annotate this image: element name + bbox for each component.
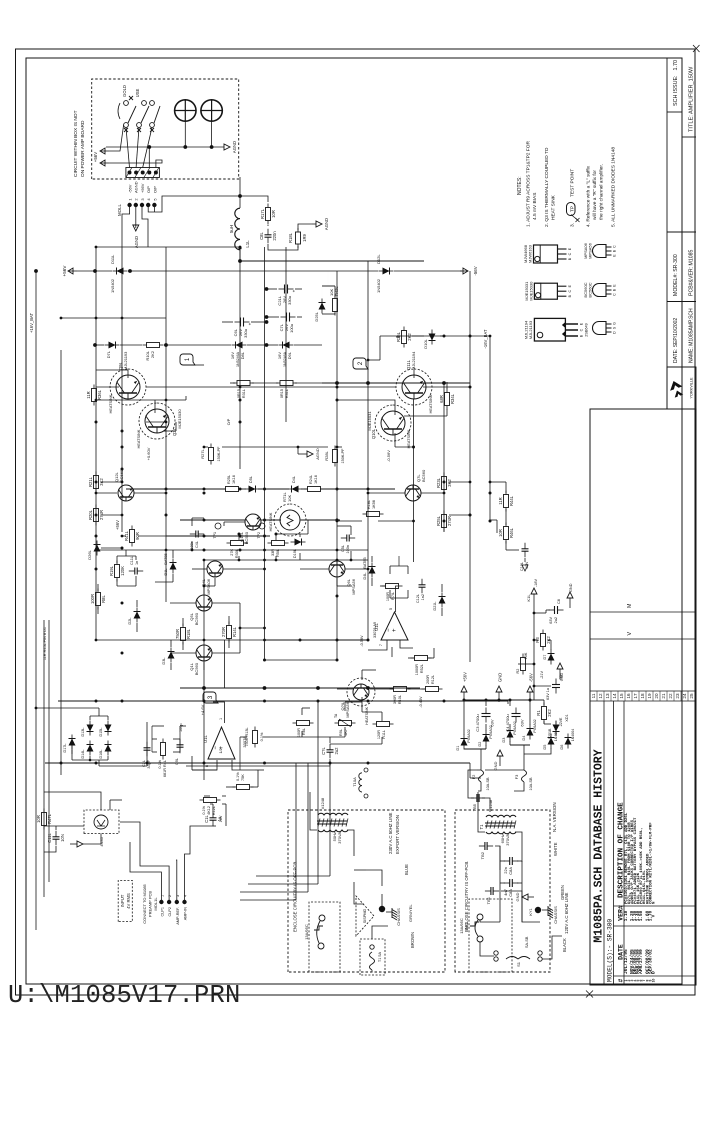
svg-text:BAT85: BAT85 <box>363 557 367 568</box>
diode D24L <box>245 488 260 490</box>
res R14L <box>228 639 230 643</box>
R7L C12L links <box>389 590 391 598</box>
K1L chain wires <box>543 721 545 724</box>
rail y204 <box>203 560 205 780</box>
svg-text:−: − <box>213 746 219 750</box>
svg-text:R24L: R24L <box>309 475 313 484</box>
svg-text:0R15: 0R15 <box>280 389 284 398</box>
svg-text:4K12: 4K12 <box>207 806 211 815</box>
svg-text:AGND: AGND <box>232 141 237 153</box>
svg-text:MJE15030: MJE15030 <box>177 409 182 429</box>
AGND arrow zobel <box>312 223 316 225</box>
wire R25L drop lower <box>449 514 470 516</box>
svg-text:D7: D7 <box>543 655 547 660</box>
svg-text:B: B <box>613 288 617 291</box>
svg-text:D: D <box>650 971 656 974</box>
svg-text:GND: GND <box>498 673 503 682</box>
export coil T10A <box>359 773 362 792</box>
GND arrow NA <box>528 896 534 898</box>
vertical x562 <box>204 559 368 561</box>
svg-text:PX6A02: PX6A02 <box>533 719 537 732</box>
svg-text:D7L: D7L <box>106 350 111 358</box>
svg-text:D4: D4 <box>522 736 526 741</box>
svg-text:370VA: 370VA <box>337 832 342 844</box>
wire L1L to jack bus <box>239 196 241 208</box>
wire R27L chain <box>204 446 208 448</box>
svg-text:MJL21194: MJL21194 <box>411 351 416 370</box>
bridge diode D2 <box>485 731 487 746</box>
res R6L <box>293 722 297 724</box>
wire C5L links <box>350 551 352 560</box>
output rail x739 <box>322 382 470 384</box>
wire pin3 +56V <box>142 205 148 247</box>
rail y286 <box>285 247 287 422</box>
svg-text:16V: 16V <box>230 352 235 359</box>
svg-text:1n2: 1n2 <box>421 594 425 600</box>
svg-text:MPSA56: MPSA56 <box>351 578 356 595</box>
diode D7 <box>550 650 552 665</box>
resistor R28L <box>334 463 336 467</box>
input bundle wire c <box>317 701 319 884</box>
gnd arrow input <box>70 843 77 845</box>
package drawing TO92 D S G <box>593 322 607 335</box>
svg-text:D17L: D17L <box>63 743 67 752</box>
transistor Q10L MJE15031 <box>381 411 405 435</box>
input dashed box <box>118 880 132 921</box>
svg-text:R34L: R34L <box>450 393 455 404</box>
svg-text:D5L: D5L <box>249 476 253 483</box>
transformer T2 export <box>317 821 347 824</box>
svg-text:MJE15030: MJE15030 <box>528 281 533 301</box>
svg-text:E: E <box>568 284 572 287</box>
wire input pair links <box>170 602 196 604</box>
resistor R16L <box>363 513 367 515</box>
wires emitter column <box>230 382 235 384</box>
svg-text:CLP2: CLP2 <box>168 907 172 917</box>
input bundle wire d <box>329 763 331 876</box>
svg-text:3.: 3. <box>570 223 576 227</box>
svg-text:BR1: BR1 <box>464 921 469 930</box>
svg-text:PREAMP PCB: PREAMP PCB <box>148 891 153 917</box>
svg-text:E: E <box>568 247 572 250</box>
svg-text:5uH: 5uH <box>229 225 234 233</box>
cap C2 22n <box>504 860 510 862</box>
gnd bus tie <box>490 701 508 704</box>
wire Q7L collector lower <box>421 492 444 494</box>
svg-text:-0.46V: -0.46V <box>419 696 423 708</box>
emitter resistor R31L <box>233 382 237 384</box>
rail y413 <box>413 399 415 562</box>
svg-text:+56V: +56V <box>62 265 67 277</box>
svg-text:33R: 33R <box>271 549 275 556</box>
wire V1 upper <box>77 270 112 272</box>
cap C5 <box>555 688 557 694</box>
res R8L <box>97 606 99 610</box>
svg-text:K1L: K1L <box>526 594 531 602</box>
res R19L <box>116 578 118 582</box>
svg-text:-56V: -56V <box>473 266 478 275</box>
diode D21L <box>441 593 443 608</box>
wire frontend drop <box>265 659 338 661</box>
wire output Zobel drop <box>423 260 425 262</box>
svg-text:DATE: SEP/10/2002: DATE: SEP/10/2002 <box>673 318 679 363</box>
svg-text:+56V: +56V <box>115 520 120 530</box>
resistor R24L <box>304 488 308 490</box>
svg-text:TP2: TP2 <box>257 532 261 539</box>
svg-text:BLUE: BLUE <box>404 864 409 875</box>
svg-text:D6: D6 <box>560 745 564 750</box>
wire pin2 AGND arrow <box>135 205 137 222</box>
R18L R14L links <box>182 642 184 650</box>
svg-text:C11L: C11L <box>47 832 52 842</box>
svg-text:TA: TA <box>334 713 338 718</box>
fuse TB1 <box>485 890 491 892</box>
svg-text:5. ALL UNMARKED DIODES 1N4148: 5. ALL UNMARKED DIODES 1N4148 <box>611 147 617 227</box>
rail -16V_BAT <box>489 336 491 520</box>
svg-text:2SB649: 2SB649 <box>585 323 589 337</box>
svg-text:+16V_BAT: +16V_BAT <box>29 313 34 334</box>
svg-text:27K: 27K <box>230 549 234 556</box>
svg-text:R21L: R21L <box>88 476 93 487</box>
rail y96 <box>95 247 97 640</box>
wire R35L top <box>396 336 400 338</box>
svg-text:R10L: R10L <box>398 695 402 704</box>
speaker jack dashed box <box>92 79 239 179</box>
fuse hookups <box>478 782 481 791</box>
vertical x482 <box>96 639 265 641</box>
svg-text:120R: 120R <box>377 730 381 739</box>
svg-text:R30L: R30L <box>235 549 239 558</box>
svg-text:AGND: AGND <box>324 218 329 230</box>
zener XD1 <box>555 721 557 736</box>
diode D10L <box>431 330 433 345</box>
svg-text:D1: D1 <box>456 746 460 751</box>
corner mark bottom-right <box>693 45 700 52</box>
svg-text:4: 4 <box>146 198 151 201</box>
bundle bends <box>240 899 296 901</box>
rail y444 <box>443 382 445 532</box>
svg-text:D4L: D4L <box>363 573 367 580</box>
TP2 test point <box>259 523 265 529</box>
svg-text:D2: D2 <box>478 742 482 747</box>
resistor R27L <box>210 461 212 465</box>
svg-text:R25L: R25L <box>227 475 231 484</box>
svg-text:19: 19 <box>647 693 652 699</box>
diode string vertical links <box>89 756 91 760</box>
R6L R50L links <box>301 731 303 737</box>
wire Q3L emitter chain <box>164 430 176 432</box>
svg-text:330u: 330u <box>287 296 292 305</box>
svg-text:2. Q3 IS THERMALLY COUPLED TO: 2. Q3 IS THERMALLY COUPLED TO <box>544 147 550 227</box>
svg-text:100R: 100R <box>297 728 301 737</box>
svg-text:R27L: R27L <box>200 448 205 458</box>
svg-text:S: S <box>613 326 617 329</box>
svg-text:1: 1 <box>185 357 191 361</box>
svg-text:R31L: R31L <box>242 389 246 398</box>
svg-text:24: 24 <box>682 693 687 699</box>
svg-text:D5: D5 <box>543 745 547 750</box>
svg-text:O/P: O/P <box>152 186 157 193</box>
svg-text:will have a "R" suffix for: will have a "R" suffix for <box>592 170 598 220</box>
Q8L MPSA56 <box>353 684 369 700</box>
svg-text:R46L: R46L <box>509 527 514 538</box>
svg-text:2: 2 <box>358 361 364 365</box>
rail y368 <box>367 261 369 640</box>
power entry +56V arrow <box>68 270 77 272</box>
driver Q12L BC560 <box>118 485 134 501</box>
psu +56V arrow <box>463 692 465 702</box>
svg-text:23: 23 <box>675 693 680 699</box>
gnd arrow D7 <box>559 669 561 679</box>
svg-text:4. Reference with a "L" suffix: 4. Reference with a "L" suffix <box>586 165 592 227</box>
svg-text:R23L: R23L <box>436 477 441 488</box>
R13L links <box>240 736 247 738</box>
VAS Q6L MPSA56 <box>329 561 345 577</box>
input network links <box>152 751 157 753</box>
wire upper feedback <box>380 335 400 337</box>
svg-text:GND: GND <box>515 892 520 901</box>
wire R23L drop lower <box>449 481 470 483</box>
bulk cap C21L <box>279 288 285 290</box>
svg-text:63V: 63V <box>549 617 553 624</box>
bridge diode D1 <box>463 735 465 750</box>
svg-text:C8A: C8A <box>508 867 513 875</box>
input connector MOL1L <box>159 900 163 904</box>
svg-text:2: 2 <box>134 198 139 201</box>
svg-text:D16L: D16L <box>99 749 103 758</box>
bias bus x602 <box>180 519 245 521</box>
wire to opamp1 minus <box>192 769 217 771</box>
svg-text:R2: R2 <box>516 669 520 674</box>
svg-text:+0.60V: +0.60V <box>146 447 151 460</box>
cap C11L input <box>55 839 57 845</box>
svg-text:200R: 200R <box>426 675 430 684</box>
wire -16V feed <box>490 519 497 521</box>
res R50L <box>335 722 339 724</box>
transistor Q3L MJE15030 <box>145 409 169 433</box>
diode D26L <box>96 541 98 556</box>
svg-text:C3 4700u: C3 4700u <box>475 714 480 731</box>
svg-text:TB5: TB5 <box>472 803 477 811</box>
svg-text:F3: F3 <box>514 774 519 779</box>
svg-text:AMP-IN: AMP-IN <box>184 907 188 921</box>
svg-text:1/2: 1/2 <box>219 749 223 754</box>
svg-text:D15L: D15L <box>99 727 103 736</box>
svg-text:1N4004: 1N4004 <box>571 729 575 742</box>
svg-text:R1: R1 <box>536 710 541 716</box>
svg-text:1: 1 <box>128 198 133 201</box>
diode D7L <box>105 344 120 346</box>
svg-text:C8: C8 <box>557 599 561 604</box>
line switch S1 <box>494 957 498 961</box>
svg-text:D11L: D11L <box>110 254 115 264</box>
svg-text:R12L: R12L <box>431 675 435 684</box>
C 2u2 links <box>329 759 331 766</box>
svg-text:B: B <box>613 249 617 252</box>
MOV dashed triangle <box>356 896 374 936</box>
long bus x359 <box>45 762 470 764</box>
svg-text:E: E <box>613 284 617 287</box>
svg-text:17: 17 <box>633 693 638 699</box>
svg-text:63V: 63V <box>520 719 525 726</box>
res 1000R <box>411 657 415 659</box>
cap C10L <box>524 551 526 557</box>
svg-text:2K2: 2K2 <box>150 350 155 358</box>
svg-text:TEST POINT: TEST POINT <box>570 169 576 197</box>
gnd arrow C8 <box>569 598 571 608</box>
svg-text:D8L: D8L <box>240 351 245 359</box>
revision history table frame <box>590 409 696 985</box>
res R1 <box>543 720 545 724</box>
wire opamp U1B in <box>391 647 393 657</box>
cap C12L <box>421 587 423 593</box>
svg-text:M1085PA.SCH DATABASE HISTORY: M1085PA.SCH DATABASE HISTORY <box>593 749 606 942</box>
input cap C9L <box>179 747 181 753</box>
svg-text:TP: TP <box>569 206 574 212</box>
svg-text:D25L: D25L <box>314 311 319 321</box>
res R10L <box>390 688 394 690</box>
diode D23L <box>288 488 303 490</box>
input pair Q1L BC560 <box>196 645 212 661</box>
svg-text:SA-SB: SA-SB <box>525 936 529 948</box>
svg-text:R44L: R44L <box>509 495 514 506</box>
wires cap ladder <box>222 321 233 323</box>
svg-text:C5: C5 <box>559 675 563 680</box>
driver Q7L BC560 <box>405 485 421 501</box>
bus x482 extension <box>265 639 369 641</box>
svg-text:TITLE: AMPLIFIER_150W: TITLE: AMPLIFIER_150W <box>689 66 695 132</box>
bridge diode D4 <box>529 725 531 740</box>
svg-text:R52L: R52L <box>420 664 424 673</box>
rail second top <box>43 620 45 897</box>
export line sub dashed box <box>309 902 340 972</box>
wire R28L chain <box>298 446 328 448</box>
D5 D6 hookups <box>524 748 551 754</box>
svg-text:390R: 390R <box>393 695 397 704</box>
wire flags <box>195 364 204 366</box>
jack box connector strip <box>126 168 159 178</box>
diode D1L BAT85 <box>172 559 174 574</box>
svg-text:YORKVILLE: YORKVILLE <box>690 377 694 399</box>
svg-text:R18L: R18L <box>288 232 293 243</box>
resistor R42L <box>334 312 336 316</box>
svg-text:10A-SB: 10A-SB <box>529 777 533 791</box>
svg-text:75K: 75K <box>241 774 245 781</box>
gnd arrow fuses <box>499 756 501 766</box>
bus x434 <box>180 687 420 689</box>
svg-text:R47L: R47L <box>47 813 52 824</box>
fuse TB5 <box>471 797 477 799</box>
bulk cap C6L <box>235 321 241 323</box>
svg-text:R7lL: R7lL <box>391 592 395 600</box>
table column lines <box>614 975 697 977</box>
svg-text:5: 5 <box>389 608 393 610</box>
svg-text:D21L: D21L <box>433 601 437 610</box>
long bus x633 <box>126 488 226 490</box>
svg-text:100u: 100u <box>289 324 294 333</box>
export PSU dashed box <box>288 810 445 972</box>
svg-text:370VA: 370VA <box>505 834 510 846</box>
svg-text:100R: 100R <box>386 592 390 601</box>
svg-text:11: 11 <box>591 693 596 698</box>
wire output drop <box>240 260 424 262</box>
resistor R36L <box>93 402 95 406</box>
svg-text:BC560: BC560 <box>194 612 199 625</box>
svg-text:MOL1L: MOL1L <box>153 897 158 911</box>
svg-text:+: + <box>292 289 297 292</box>
svg-text:BAT85: BAT85 <box>164 553 168 564</box>
svg-text:C: C <box>613 293 617 296</box>
svg-text:PX6A02: PX6A02 <box>513 721 517 734</box>
svg-text:PX6A02: PX6A02 <box>467 729 471 742</box>
wire C4L links <box>191 542 193 550</box>
input bundle wire a <box>295 763 297 900</box>
zobel R17L <box>267 221 269 225</box>
res R2 <box>522 671 524 675</box>
svg-text:R17L: R17L <box>260 208 265 219</box>
svg-text:GOLD: GOLD <box>122 85 127 97</box>
cap C1 4n7 <box>504 882 510 884</box>
svg-text:R18L: R18L <box>367 500 371 509</box>
svg-text:E: E <box>580 322 584 325</box>
res R18L <box>182 641 184 645</box>
svg-text:R8L: R8L <box>101 594 106 602</box>
svg-text:N.A. VERSION: N.A. VERSION <box>552 802 557 832</box>
wire jack1 to bus <box>184 121 186 147</box>
svg-text:B: B <box>568 257 572 260</box>
svg-text:1000R: 1000R <box>415 664 419 675</box>
outer border frame <box>16 49 696 995</box>
svg-text:10R: 10R <box>271 210 276 218</box>
power entry -56V arrow <box>394 270 462 272</box>
R8L D2L links <box>97 607 99 614</box>
svg-text:D9L: D9L <box>287 351 292 359</box>
svg-text:APR/27/99: APR/27/99 <box>638 949 644 974</box>
resistor R41L <box>131 543 133 547</box>
svg-text:MOLL: MOLL <box>117 203 122 216</box>
fuse F3 <box>522 770 527 782</box>
output jack J1 <box>175 100 196 121</box>
svg-text:AMP-REF.: AMP-REF. <box>176 907 180 925</box>
wire R10L R12L bottom <box>408 688 425 690</box>
wire R41L link <box>122 535 126 537</box>
svg-text:12: 12 <box>598 693 603 699</box>
diode D11L <box>113 270 128 272</box>
svg-text:CHASSIS: CHASSIS <box>553 906 558 924</box>
svg-text:11R: 11R <box>86 391 91 398</box>
rail output mid <box>239 385 241 462</box>
svg-text:D12L: D12L <box>376 254 381 264</box>
bridge diode D3 <box>509 727 511 742</box>
res R47L <box>43 826 45 830</box>
svg-text:1. ADJUST R9 ACROSS TP1&TP2 FO: 1. ADJUST R9 ACROSS TP1&TP2 FOR <box>526 141 532 227</box>
svg-text:CIRCUIT WITHIN BOX IS NOT: CIRCUIT WITHIN BOX IS NOT <box>73 110 79 177</box>
cap C8 2u2 <box>549 609 555 611</box>
svg-text:T1 5A: T1 5A <box>378 951 382 962</box>
rail +56V <box>121 271 123 532</box>
wire R30L links <box>238 556 240 560</box>
fuse TB2 <box>479 845 485 847</box>
svg-text:10A-SB: 10A-SB <box>486 777 490 791</box>
cap C4L <box>190 533 196 535</box>
wire Q4L links <box>192 568 207 570</box>
zobel R18L <box>297 244 299 248</box>
svg-text:HEATSINK: HEATSINK <box>269 512 273 531</box>
wire jack2 to bus <box>211 121 213 147</box>
svg-text:C11L: C11L <box>130 556 134 565</box>
svg-text:MJL21193: MJL21193 <box>528 320 533 339</box>
svg-text:C8L: C8L <box>259 231 264 239</box>
